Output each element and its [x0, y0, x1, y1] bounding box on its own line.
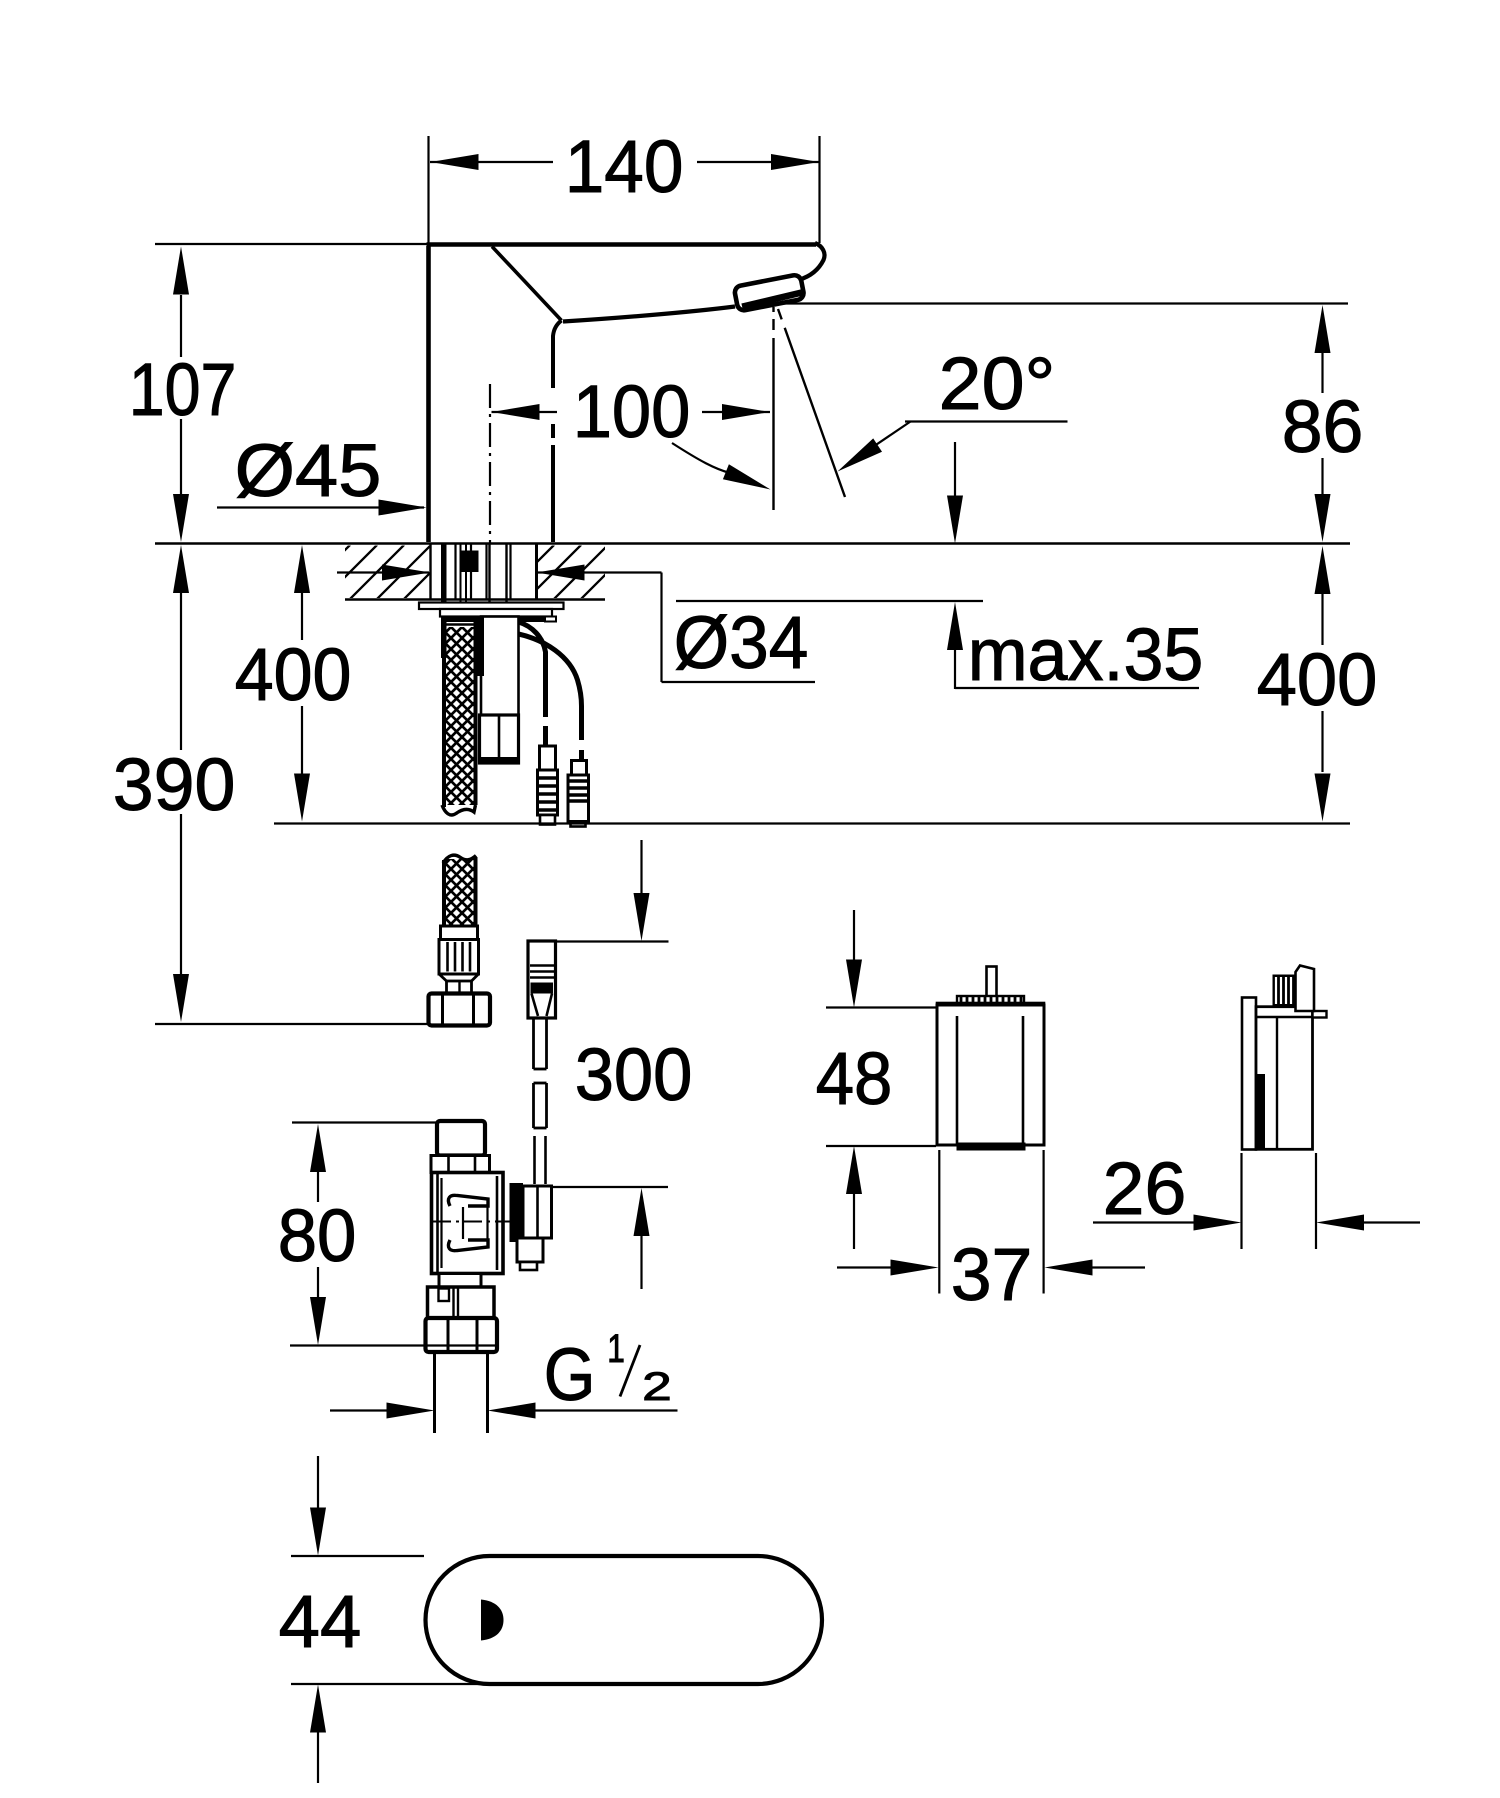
solenoid connector block [510, 1183, 524, 1242]
spout tip reference line [777, 302, 1348, 304]
max35 lower arrow (counter bottom) [954, 650, 956, 689]
valve main body [432, 1173, 504, 1274]
hose crimp collar [439, 940, 479, 975]
valve neck [439, 1274, 481, 1288]
dim 26 line and arrows [1093, 1221, 1196, 1223]
shank channel lines [460, 544, 462, 602]
box2 terminal block [1273, 975, 1296, 1007]
valve clip channel [462, 1207, 464, 1239]
20deg leader line and arrow [858, 422, 911, 458]
box1 terminal strip [957, 996, 1024, 1006]
hose lower cut top [443, 855, 476, 863]
countertop top line [155, 542, 1350, 545]
hose ferrule [441, 926, 478, 940]
20deg label underline [905, 420, 1068, 422]
dim 300 top reference line [555, 940, 669, 942]
flange washer 2 right step [545, 617, 556, 622]
dim 400L line and arrows [301, 593, 303, 640]
faucet top-right corner curve [799, 243, 825, 280]
valve clip lower [448, 1240, 488, 1251]
hose lower braid [446, 859, 474, 926]
dim 100 line and arrows [492, 411, 558, 413]
faucet centre axis dash-dot [489, 384, 491, 543]
svg-text:86: 86 [1282, 385, 1364, 468]
svg-text:48: 48 [816, 1037, 893, 1120]
svg-text:80: 80 [278, 1194, 357, 1277]
countertop bottom line left [345, 598, 605, 600]
svg-text:140: 140 [565, 125, 684, 208]
shank line c [485, 544, 487, 599]
faucet spout aerator outlet [734, 274, 805, 311]
dim 140 extension line left [427, 136, 429, 243]
valve union nut [426, 1318, 498, 1352]
valve clip upper [448, 1195, 488, 1206]
solenoid body [523, 1186, 552, 1238]
hose stem [447, 981, 472, 994]
flange washer 1 [419, 603, 564, 610]
supply pipe [433, 1352, 436, 1433]
shank line a [454, 544, 456, 599]
conduit black bar [477, 617, 484, 677]
dim 44 top arrow [317, 1456, 319, 1510]
svg-text:Ø34: Ø34 [674, 601, 809, 684]
dim 390 bottom reference line [155, 1023, 429, 1025]
hose upper outline [442, 617, 446, 807]
svg-text:26: 26 [1103, 1147, 1187, 1230]
mounting hole right edge [535, 544, 538, 599]
sensor dot [481, 1600, 504, 1641]
dim 44 bottom arrow [310, 1685, 326, 1733]
hose upper cut end [442, 805, 476, 815]
flange washer 3 (thick) [445, 617, 545, 622]
max35 upper arrow (counter top) [954, 442, 956, 497]
box2 black bar [1257, 1074, 1266, 1149]
dim 300 bottom reference line [544, 1186, 668, 1188]
dim 80 top reference line [292, 1121, 437, 1123]
conduit tube [481, 617, 519, 716]
svg-text:Ø45: Ø45 [235, 429, 382, 512]
dim 44 top reference line [291, 1555, 424, 1557]
box2 flag tab [1296, 966, 1315, 1012]
flange washer 2 [440, 609, 552, 617]
dim G12 line and arrows [330, 1409, 390, 1411]
faucet spout underside [563, 307, 735, 322]
box1 body [937, 1005, 1044, 1145]
dim 48 line and arrows [853, 910, 855, 962]
svg-text:20°: 20° [939, 342, 1056, 425]
dim 140 line and arrows [430, 161, 553, 163]
dim 26 extension lines [1240, 1153, 1242, 1249]
svg-text:107: 107 [129, 348, 237, 431]
box2 right lip [1313, 1011, 1327, 1018]
hose crimp taper [439, 974, 447, 981]
spout 20deg angled line [778, 309, 845, 497]
mounting hole left edge [429, 544, 431, 599]
box2 body [1256, 1007, 1313, 1150]
countertop bottom line right (max35 ref) [676, 600, 983, 602]
dim 80 bottom reference line [290, 1344, 495, 1346]
cable B curve [519, 634, 582, 740]
cable B end [579, 750, 584, 762]
svg-text:390: 390 [113, 743, 236, 826]
shank line b [470, 544, 472, 599]
box1 plunger stem [987, 967, 997, 1007]
hose union nut [429, 994, 491, 1026]
spout tip vertical dash-dot line [772, 307, 774, 312]
box2 left plate [1242, 998, 1256, 1150]
svg-text:400: 400 [235, 633, 352, 716]
valve axis dash-dot [433, 1221, 510, 1223]
dim 140 extension line right [818, 136, 820, 243]
valve lower fitting [428, 1287, 495, 1318]
dim D34 underline [662, 681, 816, 683]
svg-text:44: 44 [279, 1580, 362, 1663]
faucet right edge below spout [553, 321, 562, 389]
hose upper braid [446, 627, 474, 805]
solenoid lower step [517, 1238, 543, 1262]
svg-text:400: 400 [1257, 638, 1378, 721]
dim 48 top reference line [826, 1006, 936, 1008]
dim 300 bottom arrow [634, 1188, 650, 1236]
valve flange [431, 1156, 490, 1173]
sensor cable channel [488, 544, 490, 616]
faucet left edge [426, 246, 431, 542]
dim 300 top arrow [640, 840, 642, 896]
svg-text:100: 100 [573, 370, 691, 453]
box1 top cap [937, 1003, 1044, 1016]
dim 48 bottom reference line [826, 1145, 936, 1147]
plug A [540, 746, 556, 770]
dim 86 line and arrows [1321, 353, 1323, 393]
cable A end [543, 726, 548, 747]
dim 37 extension lines [938, 1150, 940, 1294]
reference line hose end [274, 822, 1350, 824]
max35 underline [955, 687, 1199, 689]
svg-text:2: 2 [642, 1365, 672, 1409]
plug B [572, 761, 587, 776]
dim D34 left arrow [337, 571, 429, 573]
valve top fitting [437, 1121, 485, 1156]
threaded stud (black) [441, 544, 447, 658]
dim 390 line and arrows [180, 593, 182, 750]
svg-text:1: 1 [607, 1327, 625, 1371]
extension cable with breaks [532, 1018, 535, 1069]
dim 400R line and arrows [1321, 594, 1323, 645]
svg-text:G: G [544, 1333, 596, 1416]
box1 bottom bar [957, 1143, 1026, 1151]
shank black block [460, 551, 479, 573]
dim 107 line and arrows [180, 295, 182, 357]
connector box [480, 715, 519, 763]
sensor window oval (plan view) [426, 1556, 823, 1684]
shank line d [509, 544, 511, 599]
svg-text:max.35: max.35 [968, 613, 1204, 696]
dim 37 line and arrows [837, 1266, 893, 1268]
dim 44 bottom reference line [291, 1683, 488, 1685]
cable A curve [519, 622, 546, 717]
extension plug C [528, 941, 556, 1018]
hose lower outline [442, 860, 446, 926]
dim 80 line and arrows [317, 1170, 319, 1202]
dim D34 bracket vertical [660, 573, 662, 683]
faucet top plane diagonal edge [492, 247, 562, 321]
dim 107 top extension line [155, 243, 427, 245]
svg-text:300: 300 [575, 1033, 693, 1116]
connector box bottom bar [480, 757, 519, 764]
angle arc left with arrow [672, 443, 730, 473]
faucet top edge [427, 242, 817, 247]
svg-text:37: 37 [951, 1233, 1033, 1316]
label D45 leader line and arrow [217, 506, 424, 508]
dim D34 right arrow and leader [537, 571, 662, 573]
